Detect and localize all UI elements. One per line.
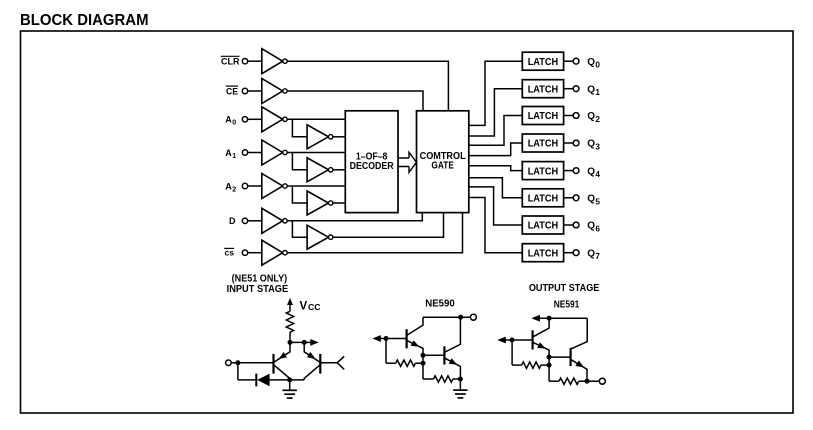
output terminal Q1 bbox=[573, 86, 579, 92]
svg-text:cs: cs bbox=[225, 249, 235, 258]
wire CE inverter to control gate top bbox=[287, 91, 423, 111]
wire control gate to latch Q4 bbox=[469, 166, 523, 171]
wire latch Q4 to output terminal bbox=[564, 170, 574, 172]
latch Q4 bbox=[522, 162, 563, 180]
node NE590 base branch bbox=[384, 336, 389, 341]
input terminal CE bbox=[242, 88, 247, 93]
wire control gate to latch Q5 bbox=[469, 178, 523, 198]
wire latch Q2 to output terminal bbox=[564, 115, 574, 117]
inverter A1 complement bbox=[307, 158, 328, 182]
input terminal CLR bbox=[242, 59, 247, 64]
inverter CE bbox=[262, 79, 283, 104]
transistor Q2 (input stage right) bbox=[319, 354, 321, 374]
svg-text:6: 6 bbox=[595, 225, 600, 234]
node NE591 emitter junction bbox=[547, 355, 552, 360]
transistor Q4 (NE590 output) bbox=[443, 346, 445, 364]
diode D1 (input clamp) bbox=[255, 374, 257, 387]
output terminal NE591 bbox=[599, 378, 605, 384]
control gate box bbox=[417, 111, 469, 213]
svg-text:LATCH: LATCH bbox=[528, 194, 559, 205]
wire control gate to latch Q7 bbox=[469, 198, 523, 253]
svg-text:Q: Q bbox=[587, 111, 595, 122]
svg-text:NE590: NE590 bbox=[425, 299, 455, 310]
latch Q6 bbox=[522, 216, 563, 234]
svg-text:Q: Q bbox=[587, 194, 595, 205]
overline CLR bbox=[221, 55, 240, 57]
wire input branch down bbox=[237, 363, 239, 380]
wire A1 terminal to inverter bbox=[248, 152, 262, 154]
svg-text:1: 1 bbox=[595, 88, 600, 97]
wire D inverter to control gate bottom bbox=[287, 213, 422, 221]
wire control gate to latch Q2 bbox=[469, 116, 523, 146]
output terminal Q2 bbox=[573, 113, 579, 119]
input terminal (input stage) bbox=[226, 360, 232, 366]
wire A2 inverter to decoder bbox=[287, 185, 345, 187]
svg-text:LATCH: LATCH bbox=[528, 84, 559, 95]
svg-text:LATCH: LATCH bbox=[528, 111, 559, 122]
wire A0 terminal to inverter bbox=[248, 118, 262, 120]
bus arrow decoder to control gate bbox=[398, 157, 409, 159]
svg-text:OUTPUT STAGE: OUTPUT STAGE bbox=[529, 283, 600, 294]
input terminal CS bbox=[242, 250, 247, 255]
svg-text:LATCH: LATCH bbox=[528, 248, 559, 259]
node: collector junction left bbox=[288, 340, 293, 345]
decoder 1-OF-8 box bbox=[345, 111, 398, 213]
inverter A1 bbox=[262, 140, 283, 165]
latch Q1 bbox=[522, 80, 563, 98]
wire CLR terminal to inverter bbox=[248, 60, 262, 62]
wire A0 branch to complement inverter bbox=[292, 119, 307, 137]
svg-text:0: 0 bbox=[595, 61, 600, 70]
ground NE590 bbox=[459, 379, 461, 390]
wire latch Q1 to output terminal bbox=[564, 88, 574, 90]
output terminal Q4 bbox=[573, 168, 579, 174]
wire Q5 base with left arrow bbox=[500, 339, 533, 341]
wire A2 terminal to inverter bbox=[248, 185, 262, 187]
svg-text:LATCH: LATCH bbox=[528, 166, 559, 177]
svg-text:0: 0 bbox=[232, 120, 236, 127]
wire NE591 top rail with left arrow bbox=[534, 317, 588, 319]
svg-text:Q: Q bbox=[587, 84, 595, 95]
wire R1 to node bbox=[289, 332, 291, 342]
wire control gate to latch Q0 bbox=[469, 61, 523, 125]
resistor R2 (NE590 base-emitter) bbox=[386, 362, 396, 364]
wire CE terminal to inverter bbox=[248, 90, 262, 92]
latch Q7 bbox=[522, 244, 563, 262]
resistor R1 (Vcc pull-up) bbox=[286, 311, 293, 332]
node NE591 top bbox=[547, 316, 552, 321]
latch Q3 bbox=[522, 134, 563, 152]
svg-text:5: 5 bbox=[595, 197, 600, 206]
wire control gate to latch Q6 bbox=[469, 187, 523, 225]
wire Q6 base bbox=[549, 356, 571, 358]
wire to internal (arrow right) bbox=[304, 341, 312, 343]
svg-text:Q: Q bbox=[587, 166, 595, 177]
overline CE bbox=[226, 85, 238, 87]
fork symbol (multi-emitter) bbox=[337, 356, 344, 369]
wire NE590 top rail bbox=[423, 316, 470, 318]
output terminal Q6 bbox=[573, 222, 579, 228]
input terminal A0 bbox=[242, 117, 247, 122]
node NE591 R4 junction bbox=[547, 363, 552, 368]
wire CS terminal to inverter bbox=[248, 252, 262, 254]
node NE590 emitter junction bbox=[421, 353, 426, 358]
wire base branch down to R4 bbox=[511, 340, 513, 365]
wire A1 inverter to decoder bbox=[287, 152, 345, 154]
wire A2 branch to complement inverter bbox=[292, 186, 307, 203]
svg-text:7: 7 bbox=[595, 252, 600, 261]
inverter D bbox=[262, 208, 283, 233]
input terminal A2 bbox=[242, 183, 247, 188]
wire control gate to latch Q1 bbox=[469, 89, 523, 136]
svg-text:LATCH: LATCH bbox=[528, 139, 559, 150]
latch Q5 bbox=[522, 189, 563, 207]
wire latch Q5 to output terminal bbox=[564, 197, 574, 199]
svg-text:LATCH: LATCH bbox=[528, 57, 559, 68]
svg-text:CLR: CLR bbox=[221, 57, 240, 67]
transistor Q6 (NE591 output) bbox=[569, 348, 571, 366]
wire CS inverter to control gate bottom bbox=[287, 213, 462, 253]
latch Q2 bbox=[522, 107, 563, 125]
wire latch Q0 to output terminal bbox=[564, 60, 574, 62]
svg-text:4: 4 bbox=[595, 170, 600, 179]
node NE590 ground junction bbox=[458, 377, 463, 382]
svg-text:D: D bbox=[229, 216, 236, 226]
wire A2 complement to decoder bbox=[333, 202, 345, 204]
svg-text:NE591: NE591 bbox=[554, 299, 580, 310]
inverter CS bbox=[262, 240, 283, 265]
node NE591 base branch bbox=[510, 338, 515, 343]
wire Q3 base with left arrow bbox=[375, 338, 407, 340]
svg-text:2: 2 bbox=[595, 115, 600, 124]
wire diode to emitter junction bbox=[270, 379, 305, 381]
transistor Q1 (input stage left) bbox=[272, 354, 274, 374]
wire latch Q6 to output terminal bbox=[564, 224, 574, 226]
svg-text:CC: CC bbox=[308, 303, 321, 312]
latch Q0 bbox=[522, 52, 563, 70]
node NE591 output junction bbox=[585, 379, 590, 384]
output terminal Q7 bbox=[573, 250, 579, 256]
wire A1 complement to decoder bbox=[333, 169, 345, 171]
resistor R3 (NE590 emitter) bbox=[423, 378, 434, 380]
wire D terminal to inverter bbox=[248, 220, 262, 222]
wire D complement to control gate bottom bbox=[333, 213, 444, 238]
svg-text:Q: Q bbox=[587, 221, 595, 232]
inverter CLR bbox=[262, 49, 283, 74]
inverter A2 bbox=[262, 174, 283, 199]
wire D branch to complement inverter bbox=[292, 221, 307, 237]
output terminal Q0 bbox=[573, 58, 579, 64]
overline CS bbox=[224, 247, 234, 249]
svg-text:Q: Q bbox=[587, 248, 595, 259]
wire CLR inverter to control gate top bbox=[287, 61, 448, 111]
ground (input stage) bbox=[289, 380, 291, 390]
resistor R4 (NE591 base-emitter) bbox=[512, 364, 522, 366]
svg-text:INPUT STAGE: INPUT STAGE bbox=[227, 284, 289, 295]
resistor R5 (NE591 emitter) bbox=[549, 380, 559, 382]
svg-text:DECODER: DECODER bbox=[350, 161, 395, 172]
wire Q2 base to fork bbox=[320, 362, 337, 364]
wire A0 inverter to decoder bbox=[287, 118, 345, 120]
svg-text:1: 1 bbox=[232, 153, 236, 160]
svg-text:(NE51 ONLY): (NE51 ONLY) bbox=[232, 274, 288, 285]
svg-text:GATE: GATE bbox=[431, 161, 454, 172]
node NE590 top bbox=[458, 315, 463, 320]
inverter D complement bbox=[307, 225, 328, 249]
node NE590 R2 junction bbox=[421, 361, 426, 366]
wire emitter junction down bbox=[422, 355, 424, 379]
wire bottom left bbox=[238, 379, 256, 381]
output terminal Q5 bbox=[573, 195, 579, 201]
wire Q4 base bbox=[423, 354, 444, 356]
wire latch Q3 to output terminal bbox=[564, 142, 574, 144]
wire A0 complement to decoder bbox=[333, 136, 345, 138]
input terminal A1 bbox=[242, 150, 247, 155]
svg-text:Q: Q bbox=[587, 57, 595, 68]
wire A1 branch to complement inverter bbox=[292, 153, 307, 170]
svg-text:2: 2 bbox=[232, 186, 236, 193]
wire node to node bbox=[290, 341, 304, 343]
Vcc supply arrow bbox=[289, 303, 291, 312]
svg-text:BLOCK DIAGRAM: BLOCK DIAGRAM bbox=[20, 12, 149, 29]
wire control gate to latch Q3 bbox=[469, 143, 523, 156]
input terminal D bbox=[242, 218, 247, 223]
inverter A0 bbox=[262, 107, 283, 132]
wire Q1 base bbox=[231, 362, 273, 364]
wire emitter junction down bbox=[548, 357, 550, 381]
output terminal Q3 bbox=[573, 140, 579, 146]
svg-text:CE: CE bbox=[226, 86, 238, 96]
wire base branch down to R2 bbox=[385, 339, 387, 364]
output terminal NE590 bbox=[470, 314, 476, 320]
wire latch Q7 to output terminal bbox=[564, 252, 574, 254]
node: emitter junction bbox=[287, 377, 292, 382]
svg-text:3: 3 bbox=[595, 143, 600, 152]
svg-text:Q: Q bbox=[587, 139, 595, 150]
svg-text:V: V bbox=[300, 300, 308, 312]
transistor Q3 (NE590 driver) bbox=[406, 329, 408, 348]
inverter A0 complement bbox=[307, 125, 328, 149]
transistor Q5 (NE591 driver) bbox=[531, 330, 533, 349]
wire to output terminal bbox=[587, 380, 599, 382]
node: input branch bbox=[235, 360, 240, 365]
node: collector junction right bbox=[302, 340, 307, 345]
inverter A2 complement bbox=[307, 191, 328, 215]
svg-text:LATCH: LATCH bbox=[528, 221, 559, 232]
